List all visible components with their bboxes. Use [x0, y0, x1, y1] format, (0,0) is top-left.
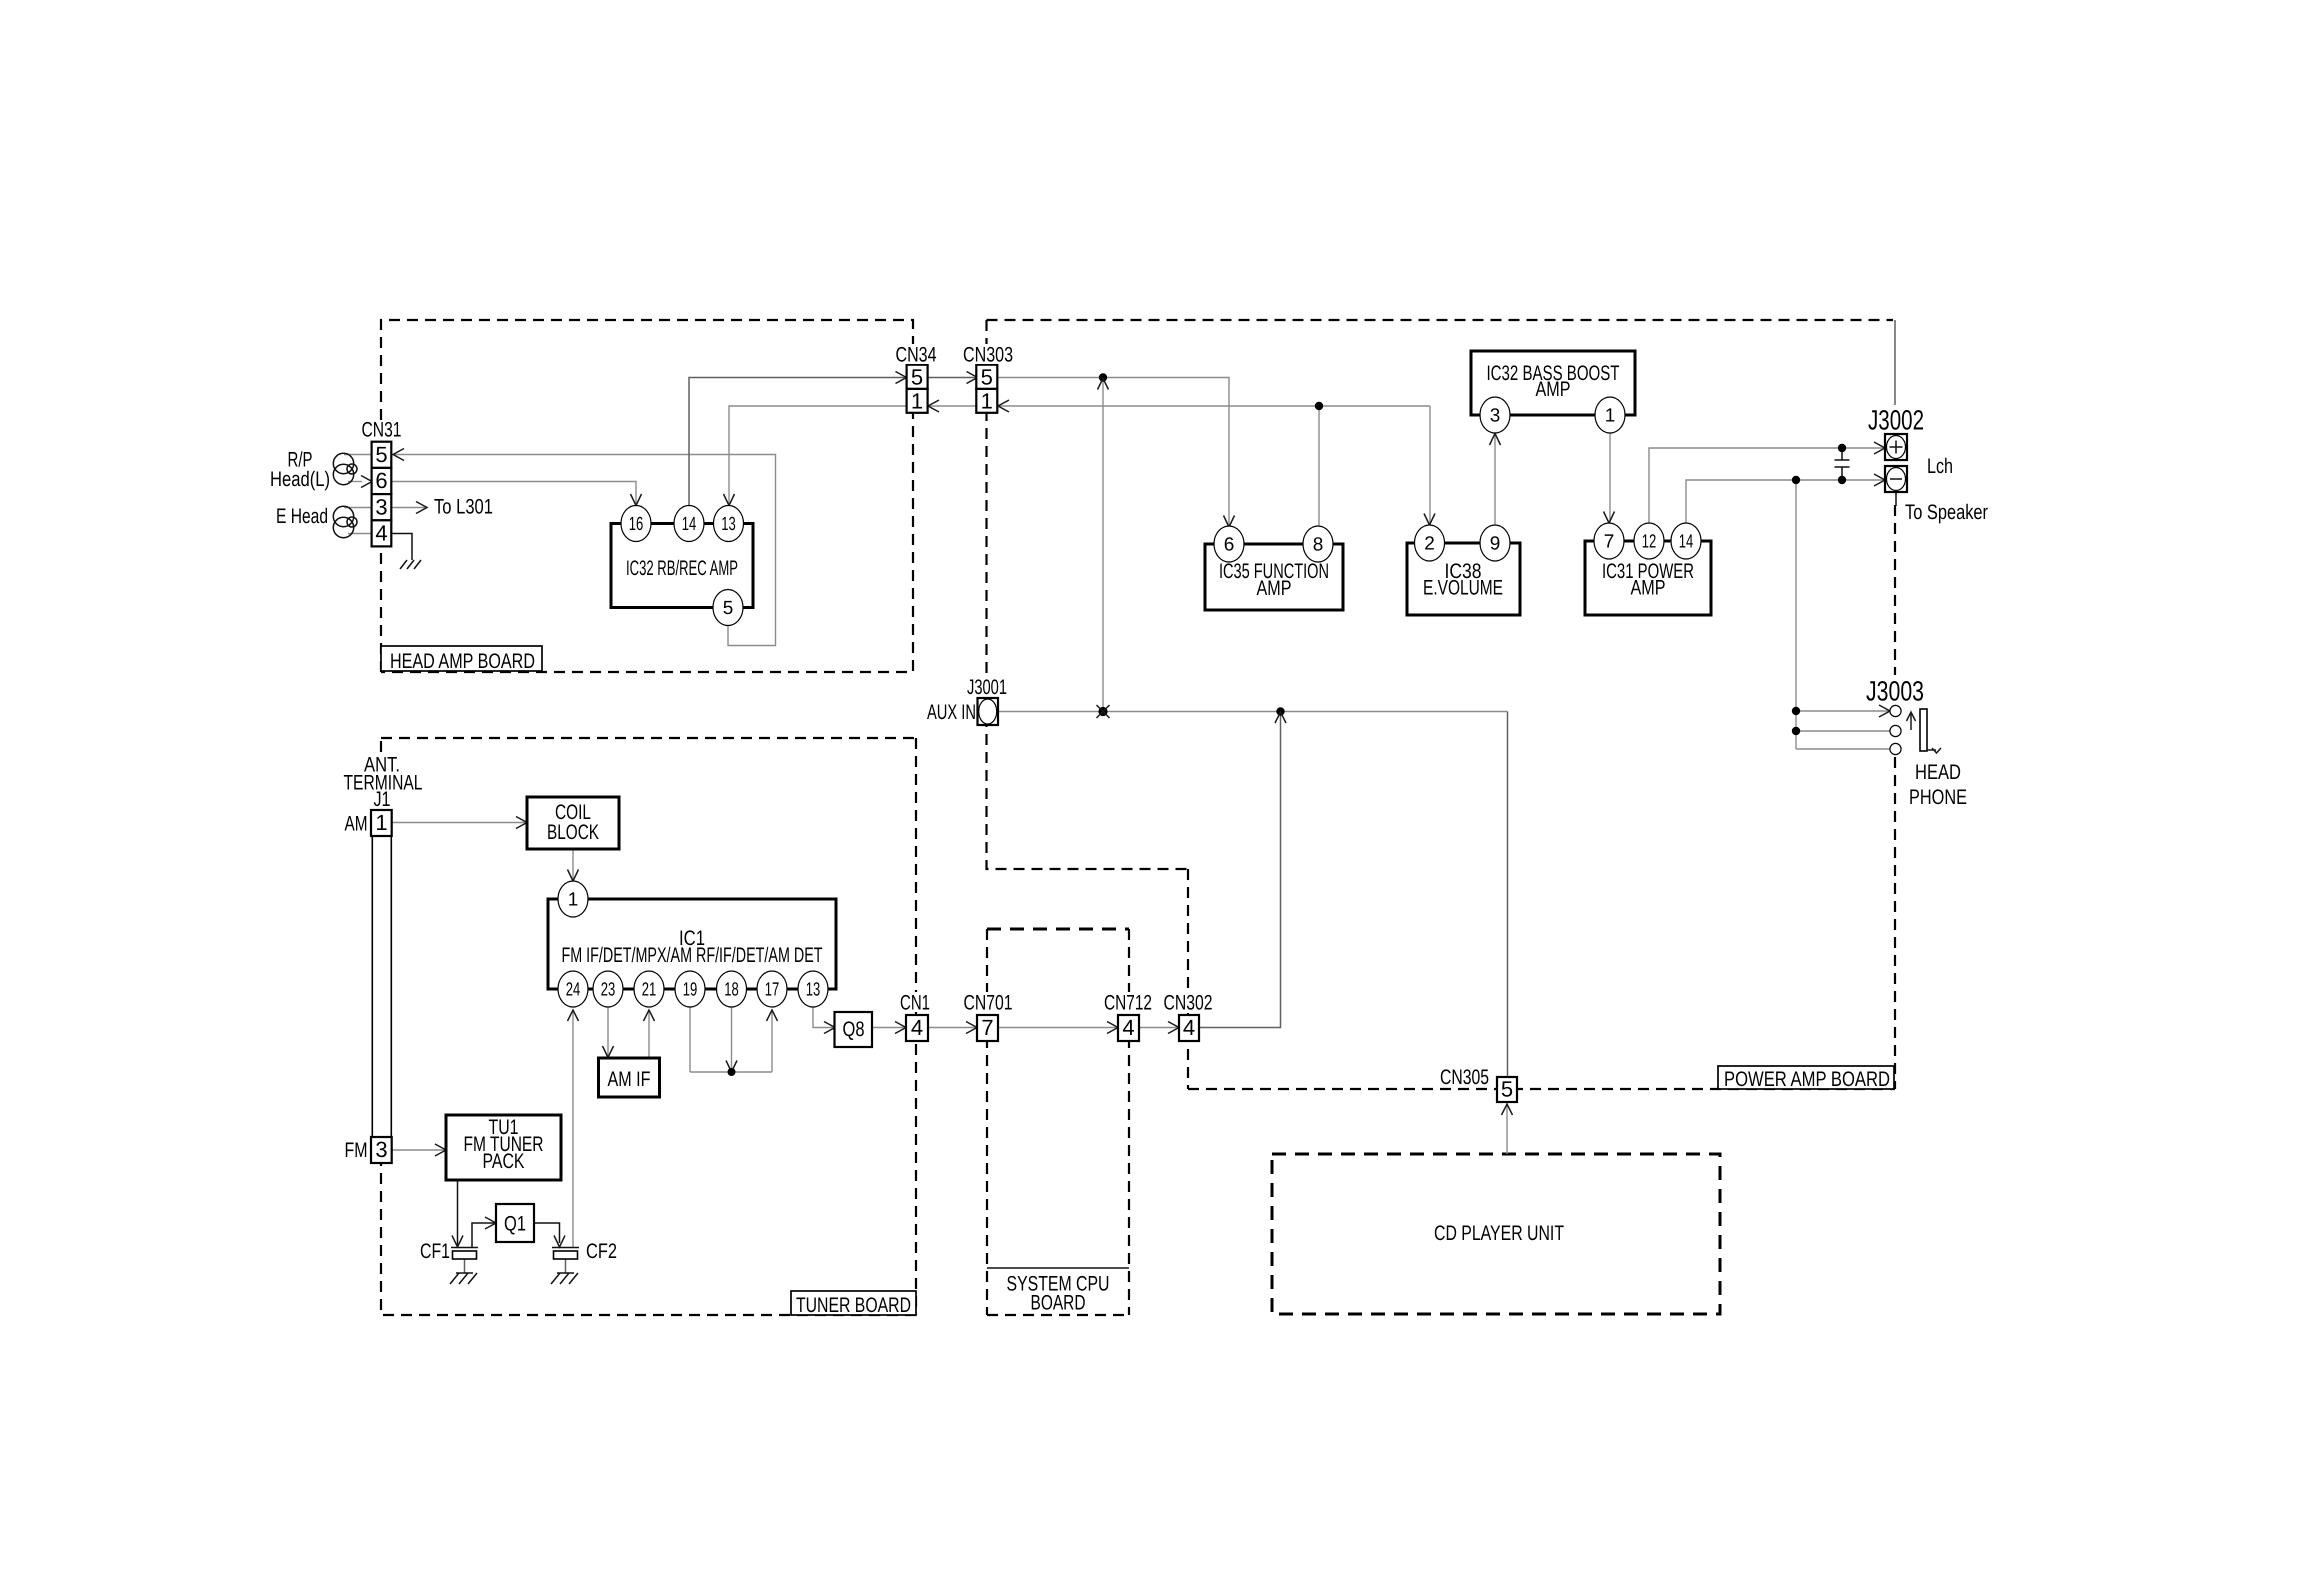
svg-text:13: 13: [721, 514, 736, 535]
svg-text:24: 24: [566, 980, 581, 1001]
junction dot J3003 tap2: [1792, 727, 1800, 735]
svg-text:5: 5: [375, 442, 387, 467]
svg-text:AM: AM: [345, 813, 368, 836]
wire Q8 to CN1: [872, 1027, 906, 1029]
wire CD player to CN305: [1506, 1104, 1508, 1154]
arrow into J3003 circle1: [1879, 705, 1890, 717]
arrow into IC1.17: [767, 1010, 778, 1021]
TU1 FM TUNER PACK: [446, 1115, 561, 1180]
wire IC1.23 to AM IF: [607, 1007, 609, 1057]
svg-text:HEAD: HEAD: [1915, 761, 1961, 784]
IC32 pin 16: [621, 506, 651, 542]
ceramic filter CF1: [451, 1248, 478, 1260]
capacitor C at J3002: [1835, 448, 1850, 480]
svg-text:CF1: CF1: [420, 1240, 450, 1263]
IC31 pin 12: [1634, 523, 1664, 559]
wire Q1 to CF2: [534, 1223, 560, 1243]
connector CN701: [977, 1015, 998, 1041]
wire COIL BLOCK to IC1.1: [572, 849, 574, 880]
svg-text:FM IF/DET/MPX/AM RF/IF/DET/AM: FM IF/DET/MPX/AM RF/IF/DET/AM DET: [562, 944, 823, 967]
svg-text:4: 4: [375, 521, 387, 546]
connector CN305: [1497, 1077, 1517, 1103]
IC U3 IC35 FUNCTION AMP: [1205, 526, 1343, 610]
svg-text:CN302: CN302: [1164, 992, 1213, 1015]
svg-text:3: 3: [375, 495, 387, 520]
board CD PLAYER UNIT outline: [1272, 1154, 1720, 1314]
label CN303: [960, 344, 1015, 364]
ground at CF1: [450, 1273, 477, 1284]
svg-text:4: 4: [911, 1015, 923, 1040]
arrow up at net5 junction: [1098, 379, 1109, 390]
IC1 pin 19: [675, 971, 705, 1007]
svg-text:E.VOLUME: E.VOLUME: [1423, 577, 1503, 600]
svg-text:J3003: J3003: [1866, 676, 1924, 707]
junction dot CN302 riser at AUX: [1276, 707, 1284, 715]
IC U5 IC31 POWER AMP: [1585, 523, 1711, 615]
label R/P Head(L): [270, 449, 330, 492]
wire CN712 to CN302: [1139, 1027, 1179, 1029]
wire TU1 to CF1: [457, 1180, 459, 1245]
label box HEAD AMP BOARD: [381, 646, 542, 673]
arrow into Q1: [485, 1217, 496, 1229]
wire AM IF to IC1.21: [648, 1010, 650, 1057]
wire CN1 to CN701: [928, 1027, 977, 1029]
svg-text:AMP: AMP: [1536, 378, 1571, 401]
wire J1.3 to TU1: [392, 1149, 446, 1151]
svg-text:J1: J1: [374, 788, 391, 811]
svg-text:CD PLAYER UNIT: CD PLAYER UNIT: [1434, 1222, 1564, 1245]
E head symbol: [333, 506, 357, 537]
connector J3001 AUX IN: [978, 698, 999, 725]
svg-text:5: 5: [911, 365, 923, 390]
junction dot net5 x1103: [1099, 373, 1107, 381]
svg-text:17: 17: [765, 980, 780, 1001]
wire CF1 to Q1: [472, 1223, 496, 1247]
connector CN1: [906, 1015, 928, 1041]
junction dot IC35.8 riser: [1315, 402, 1323, 410]
svg-text:3: 3: [1490, 406, 1501, 427]
label CN712: [1101, 992, 1155, 1012]
svg-text:Head(L): Head(L): [270, 468, 330, 491]
svg-text:9: 9: [1490, 534, 1501, 555]
wire AUX corner down to CN305: [1507, 712, 1509, 1078]
arrow into CN305 from CD: [1502, 1104, 1513, 1115]
svg-text:CN701: CN701: [964, 992, 1013, 1015]
svg-text:4: 4: [1122, 1015, 1134, 1040]
IC32 pin 14: [674, 506, 704, 542]
junction dot plus wire at capacitor: [1838, 444, 1846, 452]
arrow into IC35.6: [1224, 516, 1235, 528]
IC U1 IC32 RB/REC AMP: [611, 506, 753, 626]
IC35 pin 8: [1303, 526, 1333, 562]
arrow into IC1.21: [644, 1010, 655, 1021]
wire E head to CN31.4: [348, 533, 371, 535]
arrow into CN34.1: [928, 400, 939, 412]
R/P head symbol: [333, 453, 357, 484]
svg-text:Q8: Q8: [843, 1018, 865, 1041]
label ANT TERMINAL J1: [341, 754, 425, 812]
junction dot minus wire at J3003 branch: [1792, 476, 1800, 484]
wire CN31.4 to ground: [392, 534, 413, 561]
IC1 pin 13: [798, 971, 828, 1007]
arrow into CN1: [895, 1022, 906, 1034]
svg-text:1: 1: [1605, 406, 1616, 427]
arrow into CN712: [1107, 1022, 1118, 1034]
connector CN34: [907, 365, 928, 414]
wire IC32.14 to CN34.5: [689, 378, 906, 506]
label CN1: [898, 992, 933, 1012]
label box TUNER BOARD: [791, 1291, 916, 1317]
junction dot bus pin18: [728, 1068, 736, 1076]
svg-text:2: 2: [1424, 534, 1435, 555]
label J3002: [1865, 407, 1927, 432]
svg-text:CN31: CN31: [362, 419, 402, 442]
IC1 pin 23: [593, 971, 623, 1007]
svg-text:J3001: J3001: [967, 676, 1007, 699]
connector CN712: [1118, 1015, 1139, 1041]
wire IC31.12 to J3002 plus: [1649, 448, 1885, 523]
wire IC31.14 to J3002 minus: [1686, 480, 1885, 523]
IC32 pin 5: [713, 590, 743, 626]
transistor Q8: [835, 1012, 873, 1047]
arrow into CN31.6: [361, 476, 372, 488]
label J3003: [1863, 678, 1927, 703]
bassboost pin 3: [1480, 397, 1510, 433]
IC U4 IC38 E.VOLUME: [1407, 525, 1520, 615]
arrow into J3002 plus: [1874, 442, 1885, 454]
wire IC38.9 to bassboost.3: [1494, 434, 1496, 525]
wire CF2 to IC1.24: [572, 1010, 574, 1247]
arrow into IC1.1: [568, 870, 579, 882]
IC35 pin 6: [1214, 526, 1244, 562]
label box POWER AMP BOARD: [1718, 1066, 1894, 1091]
wire CN303.5 to IC35.6: [998, 378, 1229, 527]
connector J3003 headphone jack: [1890, 705, 1941, 754]
arrow into COIL BLOCK: [516, 817, 527, 829]
wire CN34.1 to IC32.13: [729, 406, 906, 505]
arrow into CN303.5: [967, 372, 978, 384]
wire IC35.8 net to CN303.1 and IC38.2: [998, 406, 1430, 526]
wire IC32.5 to CN31.5: [393, 455, 776, 646]
svg-text:4: 4: [1183, 1015, 1195, 1040]
board POWER AMP BOARD outline: [987, 320, 1896, 1089]
board TUNER BOARD outline: [381, 738, 916, 1315]
arrow into TU1: [435, 1144, 446, 1156]
arrow up at CN302 riser junction: [1275, 712, 1286, 723]
svg-text:1: 1: [981, 389, 993, 414]
arrow into CF2: [554, 1236, 565, 1248]
IC U2 IC32 BASS BOOST AMP: [1471, 351, 1635, 433]
arrow into IC32.16: [631, 494, 642, 506]
svg-text:3: 3: [375, 1137, 387, 1162]
board SYSTEM CPU BOARD outline: [987, 929, 1129, 1315]
svg-text:HEAD AMP BOARD: HEAD AMP BOARD: [390, 650, 535, 673]
label CN31: [358, 420, 405, 439]
wire IC1.13 to Q8: [813, 1008, 835, 1028]
junction dot minus wire at capacitor: [1838, 476, 1846, 484]
svg-text:13: 13: [806, 980, 821, 1001]
AM IF block: [599, 1058, 660, 1097]
wire CN303.1 to CN34.1: [928, 405, 977, 407]
wire CF1 stem to ground: [464, 1259, 466, 1273]
label SYSTEM CPU BOARD: [1007, 1273, 1110, 1315]
connector J1 ANT TERMINAL: [371, 810, 392, 1163]
svg-text:16: 16: [629, 514, 644, 535]
ground at CN31.4: [400, 560, 421, 569]
IC32 pin 13: [714, 506, 744, 542]
svg-text:AMP: AMP: [1631, 577, 1666, 600]
svg-text:CN712: CN712: [1104, 992, 1152, 1015]
wire J3001 AUX IN line: [998, 711, 1508, 713]
svg-text:23: 23: [601, 980, 616, 1001]
svg-text:14: 14: [1679, 532, 1694, 553]
label CN34: [893, 344, 939, 364]
label CN701: [961, 992, 1015, 1012]
arrow down at pin18 bus junction: [726, 1061, 737, 1073]
svg-text:AMP: AMP: [1257, 577, 1292, 600]
label J3001: [964, 678, 1010, 696]
arrow into J3002 minus: [1874, 474, 1885, 486]
svg-text:PACK: PACK: [483, 1150, 525, 1173]
wire E head to CN31.3: [344, 507, 371, 509]
IC1 pin 17: [757, 971, 787, 1007]
junction dot J3003 tap1: [1792, 707, 1800, 715]
svg-text:TUNER BOARD: TUNER BOARD: [796, 1294, 911, 1317]
connector J3002: [1885, 434, 1907, 492]
svg-text:AUX IN: AUX IN: [927, 701, 976, 724]
svg-text:J3002: J3002: [1868, 405, 1924, 436]
IC31 pin 7: [1594, 523, 1624, 559]
arrow into CN31.5: [393, 449, 404, 461]
connector CN302: [1179, 1015, 1199, 1041]
wire J3002 minus branch to J3003: [1796, 480, 1890, 749]
svg-text:5: 5: [1501, 1077, 1513, 1102]
svg-text:Q1: Q1: [504, 1213, 526, 1236]
connector CN303: [976, 365, 997, 414]
wire CF2 stem to ground: [565, 1259, 567, 1273]
svg-text:5: 5: [981, 365, 993, 390]
wire CN34.5 to CN303.5: [928, 377, 977, 379]
IC1 pin 1: [558, 881, 588, 917]
svg-text:CN34: CN34: [896, 344, 937, 367]
svg-text:12: 12: [1642, 532, 1657, 553]
svg-text:CN1: CN1: [900, 992, 930, 1015]
svg-text:21: 21: [642, 980, 657, 1001]
svg-text:CF2: CF2: [586, 1240, 617, 1263]
arrow into CN302: [1168, 1022, 1179, 1034]
svg-text:Lch: Lch: [1927, 455, 1953, 478]
svg-text:5: 5: [723, 598, 734, 619]
arrow into Q8: [824, 1022, 835, 1034]
wire J1.1 to COIL BLOCK: [392, 822, 527, 824]
label HEAD PHONE: [1909, 761, 1967, 809]
svg-text:CN305: CN305: [1440, 1066, 1489, 1089]
board HEAD AMP BOARD outline: [381, 320, 913, 672]
wire J3002 minus lower stub: [1895, 492, 1897, 506]
svg-text:PHONE: PHONE: [1909, 786, 1967, 809]
label CN302: [1161, 992, 1215, 1012]
svg-text:POWER AMP BOARD: POWER AMP BOARD: [1724, 1068, 1890, 1091]
ground at CF2: [551, 1273, 578, 1284]
svg-text:FM: FM: [345, 1139, 368, 1162]
IC31 pin 14: [1671, 523, 1701, 559]
wire CN701 to CN712: [998, 1027, 1118, 1029]
arrow into CN34.5: [896, 372, 907, 384]
arrow into AM IF: [603, 1046, 614, 1058]
wire IC1 pins 19 18 17 bus: [690, 1007, 772, 1072]
connector CN31: [372, 442, 392, 547]
arrow to L301: [416, 502, 427, 514]
svg-text:7: 7: [981, 1015, 993, 1040]
arrow into CN701: [966, 1022, 977, 1034]
junction dot AUX cross: [1097, 705, 1110, 718]
arrow into bassboost.3: [1490, 434, 1501, 446]
transistor Q1: [496, 1204, 534, 1242]
arrow into IC31.7: [1604, 512, 1615, 524]
arrow into IC1.24: [568, 1010, 579, 1021]
IC1 pin 21: [634, 971, 664, 1007]
svg-text:E Head: E Head: [276, 505, 328, 528]
svg-text:IC32 RB/REC AMP: IC32 RB/REC AMP: [626, 557, 738, 580]
arrow into CF1: [452, 1236, 463, 1248]
ceramic filter CF2: [552, 1248, 579, 1260]
svg-text:1: 1: [568, 890, 579, 911]
wire J3002 right edge upper link: [1894, 320, 1896, 405]
svg-text:CN303: CN303: [963, 344, 1013, 367]
IC1 FM IF/DET/MPX/AM RF/IF/DET/AM DET: [548, 881, 836, 1007]
svg-text:BOARD: BOARD: [1031, 1292, 1086, 1315]
svg-text:To Speaker: To Speaker: [1905, 501, 1988, 524]
svg-text:6: 6: [375, 468, 387, 493]
svg-text:AM IF: AM IF: [608, 1068, 651, 1091]
svg-text:14: 14: [682, 514, 697, 535]
wire R/P head to CN31.6: [348, 481, 362, 483]
IC38 pin 2: [1415, 525, 1445, 561]
IC1 pin 24: [558, 971, 588, 1007]
svg-text:18: 18: [724, 980, 739, 1001]
arrow into IC32.13: [724, 494, 735, 506]
svg-text:1: 1: [911, 389, 923, 414]
svg-text:8: 8: [1313, 535, 1324, 556]
IC1 pin 18: [717, 971, 747, 1007]
wire CN302 riser to AUX net: [1199, 712, 1281, 1028]
arrow into CN303.1: [998, 400, 1009, 412]
wire R/P head to CN31.5: [344, 454, 371, 456]
arrow into IC38.2: [1424, 514, 1435, 526]
svg-text:19: 19: [683, 980, 698, 1001]
wire CN31.6 to IC32.16: [392, 482, 636, 506]
wire CN31.3 to L301: [392, 507, 427, 509]
wire junction riser AUX to net5: [1102, 378, 1104, 712]
svg-text:1: 1: [375, 810, 387, 835]
svg-text:BLOCK: BLOCK: [547, 821, 599, 844]
COIL BLOCK: [527, 797, 619, 849]
svg-text:6: 6: [1224, 535, 1235, 556]
svg-text:7: 7: [1604, 532, 1615, 553]
bassboost pin 1: [1595, 397, 1625, 433]
wire bassboost.1 to IC31.7: [1609, 433, 1611, 522]
svg-text:To L301: To L301: [434, 496, 493, 519]
IC38 pin 9: [1480, 525, 1510, 561]
